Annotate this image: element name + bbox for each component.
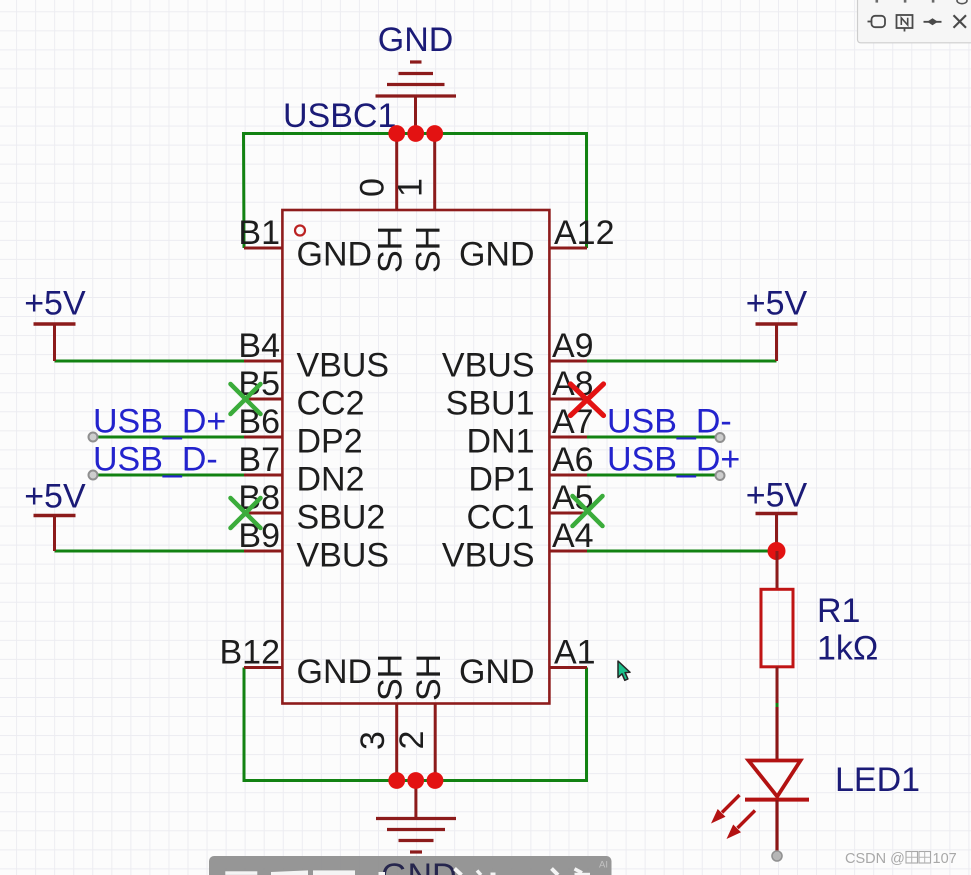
wire end dot LED1 cathode: [772, 851, 782, 861]
svg-text:B7: B7: [238, 441, 280, 479]
pin A12 (GND): [459, 214, 615, 274]
wire end dot A6 wire: [716, 471, 725, 480]
svg-text:+5V: +5V: [24, 285, 86, 323]
wire bottom bus from B12 to A1: [244, 668, 587, 781]
LED1 emission arrow 1: [711, 795, 740, 824]
svg-text:B9: B9: [238, 517, 280, 555]
subtitle overlay box: [209, 856, 612, 875]
wire pin A9 to +5V: [587, 360, 777, 363]
pin B8 (SBU2): [238, 479, 385, 537]
svg-text:SH: SH: [410, 654, 448, 701]
wire USB_D+ to pin B6: [93, 436, 244, 439]
svg-text:B1: B1: [238, 214, 280, 252]
svg-text:1: 1: [392, 178, 430, 197]
svg-text:+5V: +5V: [746, 477, 808, 515]
wire pin A7 to USB_D-: [587, 436, 720, 439]
LED1 emission arrow 2: [727, 811, 756, 840]
svg-text:SBU2: SBU2: [297, 499, 386, 537]
connector USBC1 body: [282, 210, 549, 704]
svg-text:VBUS: VBUS: [442, 347, 535, 385]
pin A4 (VBUS): [442, 517, 594, 575]
svg-text:1kΩ: 1kΩ: [817, 630, 878, 668]
junction A4/+5V/R1 node: [768, 542, 786, 560]
svg-text:A9: A9: [552, 327, 594, 365]
wire pin A4 to +5V/R1 node: [587, 550, 777, 553]
svg-text:DP1: DP1: [468, 461, 534, 499]
wire R1 to LED1: [776, 702, 779, 708]
svg-text:DN2: DN2: [297, 461, 365, 499]
svg-text:B4: B4: [238, 327, 280, 365]
pin B6 (DP2): [238, 403, 362, 461]
pin A6 (DP1): [468, 441, 593, 499]
pin A1 (GND): [459, 634, 596, 692]
toolbar icon net label: [868, 16, 886, 27]
svg-text:B6: B6: [238, 403, 280, 441]
svg-text:DP2: DP2: [297, 423, 363, 461]
power symbol +5V left top: [34, 324, 76, 361]
svg-text:A12: A12: [554, 214, 615, 252]
no-connect flag pin A5: [573, 496, 603, 526]
svg-text:0: 0: [354, 178, 392, 197]
wire end dot A7 wire: [716, 433, 725, 442]
svg-text:SH: SH: [372, 226, 410, 273]
pin B4 (VBUS): [238, 327, 389, 385]
toolbar panel: [858, 0, 971, 43]
pin 1 (SH) top: [392, 134, 448, 274]
pin 2 (SH) bottom: [393, 654, 448, 781]
pin B1 (GND): [238, 214, 372, 274]
power symbol +5V right top: [756, 324, 798, 361]
svg-text:GND: GND: [459, 236, 535, 274]
wire USB_D- to pin B7: [93, 474, 244, 477]
pin 0 (SH) top: [354, 134, 410, 274]
power symbol GND top: [376, 62, 457, 134]
svg-text:GND: GND: [378, 21, 454, 59]
svg-text:GND: GND: [297, 236, 373, 274]
pin 1 indicator circle: [295, 226, 305, 236]
svg-text:+5V: +5V: [24, 478, 86, 516]
svg-text:USBC1: USBC1: [283, 97, 396, 135]
svg-text:LED1: LED1: [835, 761, 920, 799]
svg-text:VBUS: VBUS: [297, 537, 390, 575]
svg-text:USB_D-: USB_D-: [607, 403, 732, 441]
svg-text:GND: GND: [381, 857, 457, 875]
power symbol +5V left bottom: [34, 516, 76, 552]
svg-text:VBUS: VBUS: [442, 537, 535, 575]
subtitle text fragments white: [225, 870, 590, 875]
wire pin A6 to USB_D+: [587, 474, 720, 477]
wire end dot B6 wire: [89, 433, 98, 442]
toolbar icon junction: [924, 18, 942, 25]
svg-text:3: 3: [354, 731, 392, 750]
svg-text:VBUS: VBUS: [297, 347, 390, 385]
svg-text:+5V: +5V: [746, 285, 808, 323]
pin A9 (VBUS): [442, 327, 594, 385]
svg-text:USB_D+: USB_D+: [93, 403, 226, 441]
svg-text:SBU1: SBU1: [446, 385, 535, 423]
power symbol +5V right bottom: [756, 514, 798, 552]
junction bottom left: [388, 772, 405, 789]
junction top middle: [407, 125, 424, 142]
svg-text:DN1: DN1: [466, 423, 534, 461]
pin B7 (DN2): [238, 441, 364, 499]
svg-text:GND: GND: [297, 653, 373, 691]
pin B12 (GND): [220, 634, 373, 692]
no-connect flag pin B8: [231, 498, 261, 528]
svg-text:CSDN @: CSDN @: [845, 851, 905, 867]
svg-text:USB_D-: USB_D-: [93, 441, 218, 479]
svg-text:A6: A6: [552, 441, 594, 479]
pin 3 (SH) bottom: [354, 654, 410, 781]
svg-text:SH: SH: [372, 654, 410, 701]
watermark CSDN: [845, 851, 957, 867]
svg-text:AI: AI: [599, 860, 608, 871]
wire top bus from B1 to A12: [244, 134, 587, 249]
junction top left: [388, 125, 405, 142]
toolbar icon net port N: [897, 15, 913, 32]
svg-text:107: 107: [933, 851, 957, 867]
wire +5V to pin B4: [55, 360, 245, 363]
wire +5V to pin B9: [55, 550, 245, 553]
pin A7 (DN1): [466, 403, 593, 461]
svg-text:R1: R1: [817, 592, 860, 630]
pin B9 (VBUS): [238, 517, 389, 575]
no-connect flag pin A8 (red): [571, 384, 604, 416]
pin A8 (SBU1): [446, 365, 594, 423]
svg-text:GND: GND: [459, 653, 535, 691]
toolbar partial icons top edge: [876, 0, 935, 3]
svg-text:2: 2: [393, 731, 431, 750]
junction bottom right: [427, 772, 444, 789]
svg-text:SH: SH: [410, 226, 448, 273]
svg-text:A7: A7: [552, 403, 594, 441]
power symbol GND bottom: [376, 781, 456, 853]
mouse cursor: [618, 661, 630, 680]
pin B5 (CC2): [238, 365, 364, 423]
wire end dot B7 wire: [89, 471, 98, 480]
resistor R1: [761, 551, 793, 703]
svg-text:B12: B12: [220, 634, 281, 672]
pin A5 (CC1): [466, 479, 593, 537]
no-connect flag pin B5: [231, 384, 261, 414]
svg-text:A1: A1: [554, 634, 596, 672]
LED LED1: [745, 707, 809, 857]
junction top right: [426, 125, 443, 142]
junction bottom middle: [407, 772, 424, 789]
svg-text:CC2: CC2: [297, 385, 365, 423]
toolbar icon no-connect X: [954, 15, 967, 27]
svg-text:CC1: CC1: [466, 499, 534, 537]
